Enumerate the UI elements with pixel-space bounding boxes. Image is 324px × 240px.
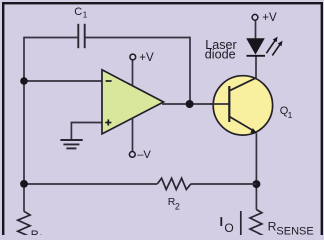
svg-text:+V: +V (139, 52, 154, 64)
current arrow I_O (220, 211, 240, 235)
wire (24, 183, 157, 185)
svg-text:1: 1 (39, 233, 44, 236)
capacitor C1 (74, 6, 87, 48)
wire (71, 123, 102, 140)
node -V (op-amp supply terminal) (129, 149, 151, 161)
wire (emitter down) (255, 133, 257, 209)
resistor R2 (157, 178, 191, 211)
wire (24, 37, 77, 39)
wire (132, 118, 134, 151)
node: inverting input junction (20, 77, 28, 85)
wire (86, 37, 190, 39)
svg-text:1: 1 (288, 110, 293, 120)
transistor Q1 (210, 76, 293, 135)
wire (24, 80, 102, 82)
wire (132, 60, 134, 86)
laser diode (205, 37, 283, 62)
node +V (op-amp supply terminal) (130, 52, 154, 64)
wire (op-amp output to base) (162, 103, 230, 105)
wire (189, 37, 191, 104)
svg-text:diode: diode (205, 47, 236, 61)
svg-text:SENSE: SENSE (276, 226, 313, 236)
op-amp U1 (102, 70, 164, 134)
ground (60, 140, 82, 148)
svg-text:–V: –V (137, 149, 151, 161)
node: output/feedback junction (186, 100, 194, 108)
svg-text:O: O (224, 221, 233, 235)
resistor RSENSE (250, 210, 314, 240)
svg-text:R: R (31, 229, 39, 235)
wire (255, 20, 257, 38)
svg-text:1: 1 (83, 10, 88, 20)
node +V (laser diode supply terminal) (252, 12, 277, 24)
resistor R1 (partially cropped) (18, 211, 44, 240)
node: emitter junction (252, 180, 260, 188)
wire (191, 183, 257, 185)
node: feedback junction (20, 180, 28, 188)
wire (23, 37, 25, 212)
svg-text:+V: +V (262, 12, 277, 24)
svg-text:R: R (268, 220, 277, 234)
wire (collector up to laser diode) (255, 56, 257, 79)
svg-text:2: 2 (175, 201, 180, 211)
svg-text:C: C (74, 6, 82, 18)
